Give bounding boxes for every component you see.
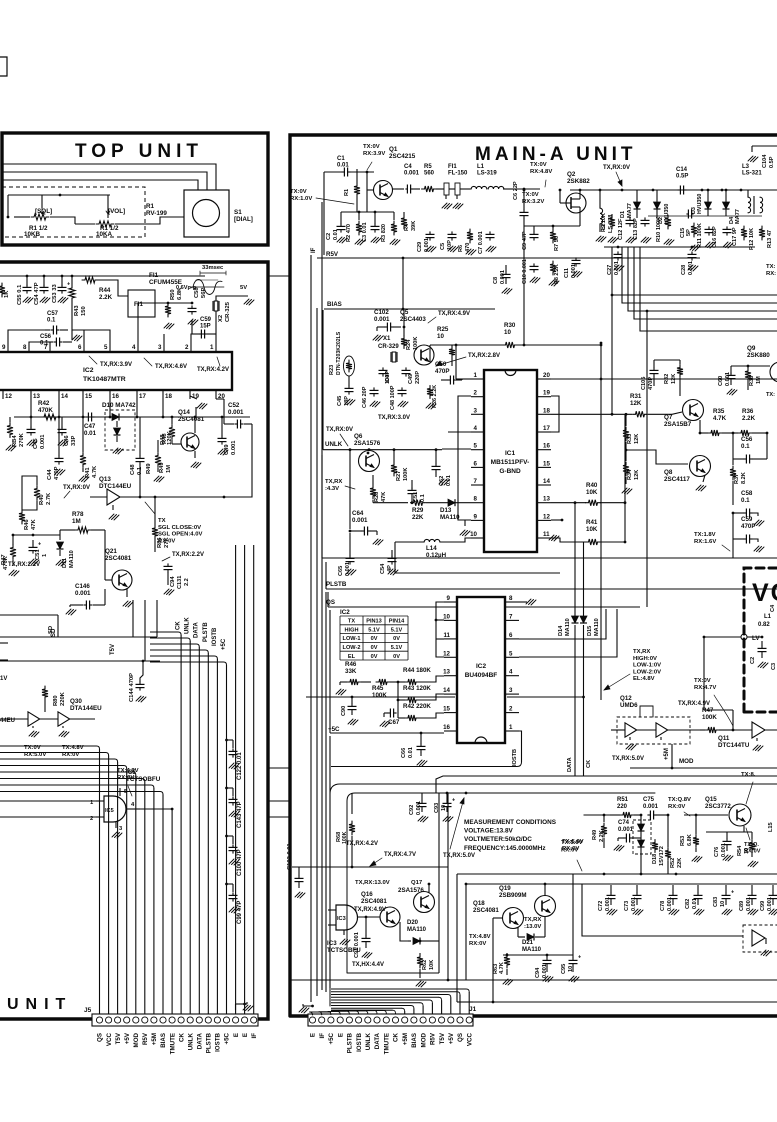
wire rail y883 xyxy=(465,883,777,980)
svg-text:9: 9 xyxy=(2,344,6,351)
amp bottom right xyxy=(752,930,766,946)
svg-text:0.001: 0.001 xyxy=(75,590,91,597)
svg-text:Q1: Q1 xyxy=(389,146,398,153)
wire J1 fan-in bus xyxy=(310,989,470,1015)
svg-text:10: 10 xyxy=(470,531,477,538)
svg-text:IOSTB: IOSTB xyxy=(356,1032,363,1051)
transistor Q16 2SC4081 sym xyxy=(358,907,400,927)
gate IC5 pins xyxy=(90,788,140,838)
svg-text:14: 14 xyxy=(443,687,450,694)
svg-text:R5: R5 xyxy=(424,164,432,170)
wire rail +5M MOD xyxy=(630,744,777,769)
ground IC1 pin11 xyxy=(549,535,559,541)
svg-text:UMD6: UMD6 xyxy=(620,702,638,709)
label S1 [DIAL] xyxy=(234,209,253,223)
svg-text:C53 33: C53 33 xyxy=(52,284,58,303)
svg-text:C13 82P: C13 82P xyxy=(633,218,639,240)
label VCO xyxy=(752,579,777,607)
svg-text:11: 11 xyxy=(443,632,450,639)
wire drop x457 xyxy=(457,874,473,1002)
svg-text:MA110: MA110 xyxy=(440,514,460,521)
svg-text:33K: 33K xyxy=(345,668,357,675)
capacitor C62 0.01 xyxy=(432,448,453,486)
capacitor C144 470P xyxy=(129,661,146,702)
wire lv tail xyxy=(732,710,734,730)
resistor R54 10 xyxy=(737,832,758,867)
svg-text:CR-325: CR-325 xyxy=(225,301,231,322)
label L1 VCO xyxy=(764,614,772,620)
svg-text:R1: R1 xyxy=(344,189,350,196)
label Q6 2SA1576 xyxy=(354,433,381,447)
svg-text:MA110: MA110 xyxy=(69,550,75,568)
label Q16 2SC4081 xyxy=(361,891,387,905)
capacitor C82 0.01 xyxy=(685,885,704,915)
gate IC5 AND xyxy=(104,796,126,822)
svg-text:R40: R40 xyxy=(586,482,598,489)
svg-text:R30: R30 xyxy=(504,322,516,329)
svg-text:RB4: RB4 xyxy=(12,435,18,447)
svg-text:RX:5.0V: RX:5.0V xyxy=(24,752,46,758)
wire lv-mesh xyxy=(703,637,705,710)
IC2 top pin stubs xyxy=(2,343,216,352)
svg-text:TX,RX:4.9V: TX,RX:4.9V xyxy=(438,311,470,317)
label L1 val xyxy=(758,622,770,628)
ground IC2 pin8 xyxy=(519,599,536,605)
svg-text:UNLK: UNLK xyxy=(187,1032,194,1050)
wire rail IF vertical xyxy=(323,172,325,255)
resistor R43 120K xyxy=(398,685,444,703)
label TX:0V RX:3.9V (Q1 base) xyxy=(363,144,385,170)
wire y1002 right xyxy=(473,1001,777,1003)
label FI1 CFUM455E xyxy=(149,272,182,286)
svg-text:TX,RX: TX,RX xyxy=(524,917,541,923)
svg-text:4: 4 xyxy=(132,344,136,351)
wire r44 out xyxy=(419,676,444,682)
label DATA vertical xyxy=(567,757,573,772)
svg-text:R54: R54 xyxy=(737,845,743,856)
label BIAS rail xyxy=(327,301,342,308)
svg-text:R46: R46 xyxy=(24,519,30,530)
label TX,RX:2.8V xyxy=(436,353,500,366)
svg-text:0.1: 0.1 xyxy=(741,443,750,450)
svg-text:470: 470 xyxy=(465,243,471,252)
svg-text:C60: C60 xyxy=(718,376,724,386)
svg-text:+: + xyxy=(38,542,41,548)
svg-text:D20: D20 xyxy=(407,920,419,926)
svg-text:R6: R6 xyxy=(458,245,464,252)
svg-text:IC2: IC2 xyxy=(83,367,94,374)
svg-text:C67: C67 xyxy=(388,719,400,726)
svg-text:Q6: Q6 xyxy=(354,433,363,440)
svg-text:0.01: 0.01 xyxy=(446,475,452,486)
svg-text:0.1: 0.1 xyxy=(741,497,750,504)
svg-text:0.001: 0.001 xyxy=(614,261,620,275)
svg-text:DTA144EU: DTA144EU xyxy=(70,705,102,712)
wire q8 base wire xyxy=(625,449,688,464)
capacitor C64 0.001 xyxy=(349,510,383,545)
capacitor C53 33 xyxy=(52,275,70,303)
svg-text:C99: C99 xyxy=(760,901,766,911)
svg-text:R48: R48 xyxy=(160,434,166,445)
wire y980 xyxy=(290,979,777,981)
svg-text:C2: C2 xyxy=(750,657,756,664)
R51 220 xyxy=(610,797,642,818)
label R49 value xyxy=(599,830,605,842)
svg-text:R36: R36 xyxy=(742,408,754,415)
wire BIAS rail xyxy=(324,257,495,311)
svg-text:10K: 10K xyxy=(429,960,435,970)
resistor R49 2.2K (audio) xyxy=(592,814,607,848)
svg-text:8.2K: 8.2K xyxy=(741,472,747,484)
svg-text:IC2: IC2 xyxy=(476,663,487,670)
label TX,RX:4.3V xyxy=(325,479,355,492)
svg-text:C100 47P: C100 47P xyxy=(237,849,243,876)
wire pin17 row xyxy=(135,399,196,418)
svg-text:0.001: 0.001 xyxy=(352,517,368,524)
capacitor C93 10 xyxy=(434,792,455,822)
capacitor C48 0.1 xyxy=(130,417,145,497)
svg-text:RX:0V: RX:0V xyxy=(469,941,486,947)
svg-text:TX,RX:5.0V: TX,RX:5.0V xyxy=(612,756,644,762)
resistor R28 47K xyxy=(370,475,387,502)
svg-text:C75: C75 xyxy=(643,797,655,803)
svg-text:0.6Vp-p: 0.6Vp-p xyxy=(176,285,197,291)
svg-text:DTC144TU: DTC144TU xyxy=(718,742,750,749)
svg-text:R52: R52 xyxy=(670,858,676,868)
label T5V bus xyxy=(110,644,116,655)
wire r47 row xyxy=(9,534,60,576)
svg-text:R44 180K: R44 180K xyxy=(403,667,431,674)
svg-text:CR-329: CR-329 xyxy=(378,344,399,350)
svg-text:PLSTB: PLSTB xyxy=(203,622,209,642)
svg-text:R2 470: R2 470 xyxy=(346,224,352,242)
resistor R48 120K xyxy=(162,416,175,444)
svg-text:IF: IF xyxy=(251,1033,258,1039)
svg-text:1K: 1K xyxy=(4,290,10,298)
svg-text:TX,RX:0V: TX,RX:0V xyxy=(63,485,90,491)
IC2 bottom pin stubs xyxy=(3,390,225,400)
svg-text:C6 22P: C6 22P xyxy=(513,181,519,200)
svg-text:2: 2 xyxy=(185,344,189,351)
svg-text:10K: 10K xyxy=(586,526,598,533)
label MOD xyxy=(679,758,694,765)
svg-text:UNIT: UNIT xyxy=(7,996,72,1013)
page-edge fragment top-left xyxy=(0,57,7,76)
svg-text:TK10487MTR: TK10487MTR xyxy=(83,376,126,383)
svg-text:2SC4081: 2SC4081 xyxy=(361,898,387,905)
svg-text:Q13: Q13 xyxy=(99,476,111,483)
svg-text:C57: C57 xyxy=(47,311,59,317)
wire R43-FI1 row xyxy=(72,280,128,340)
svg-text:2SB909M: 2SB909M xyxy=(499,892,527,899)
wire unlk drop xyxy=(349,448,352,529)
svg-text:0.001: 0.001 xyxy=(618,827,634,833)
svg-text:100K: 100K xyxy=(413,337,419,350)
svg-text:18: 18 xyxy=(165,393,172,400)
svg-text:TX,RX: TX,RX xyxy=(633,649,650,655)
svg-text:12: 12 xyxy=(543,513,550,520)
svg-text:0.001: 0.001 xyxy=(404,171,420,177)
label IF rail xyxy=(311,247,317,253)
label R47 470K xyxy=(3,555,9,570)
svg-text:QS: QS xyxy=(457,1033,464,1042)
svg-text:C50: C50 xyxy=(435,361,447,368)
svg-text:L14: L14 xyxy=(426,545,437,552)
amp Q13 DTC144EU xyxy=(90,476,140,520)
svg-text:17: 17 xyxy=(543,425,550,432)
svg-text:C51: C51 xyxy=(35,549,41,560)
svg-text:EL:4.8V: EL:4.8V xyxy=(633,676,655,682)
svg-text:10: 10 xyxy=(504,329,511,336)
svg-text:2: 2 xyxy=(474,390,478,397)
svg-text:C78: C78 xyxy=(660,901,666,911)
svg-text:IOSTB: IOSTB xyxy=(512,749,518,766)
svg-text:R42 220K: R42 220K xyxy=(403,703,431,710)
svg-text:C45: C45 xyxy=(337,396,343,406)
resistor R3 820 xyxy=(381,212,400,245)
capacitor C59 470P xyxy=(733,513,764,558)
svg-text:C91 0.001: C91 0.001 xyxy=(354,932,360,958)
svg-text:5: 5 xyxy=(474,443,478,450)
svg-text:10: 10 xyxy=(437,333,444,340)
svg-text:IC3: IC3 xyxy=(327,940,337,947)
svg-text:0.1: 0.1 xyxy=(47,318,56,324)
capacitor C46 33P xyxy=(58,417,78,446)
svg-text:C73: C73 xyxy=(624,901,630,911)
capacitor C99 0.001 xyxy=(760,885,777,915)
capacitor C45 18P (main) xyxy=(337,376,355,406)
svg-text:8: 8 xyxy=(23,344,27,351)
svg-text:IC2: IC2 xyxy=(340,609,350,616)
resistor R11 100K xyxy=(691,223,703,248)
svg-text:7: 7 xyxy=(44,344,48,351)
svg-text:C44: C44 xyxy=(47,469,53,480)
resistor R27 100K xyxy=(391,448,409,481)
svg-text:4.7K: 4.7K xyxy=(713,415,727,422)
svg-text:2SC4117: 2SC4117 xyxy=(664,476,690,483)
svg-text:12K: 12K xyxy=(634,434,640,444)
svg-text:C58: C58 xyxy=(741,490,753,497)
svg-text:BIAS: BIAS xyxy=(411,1033,418,1048)
amp Q12a xyxy=(611,723,637,750)
svg-text:DATA: DATA xyxy=(567,757,573,772)
resistor R45 100K xyxy=(372,679,399,699)
svg-text:2SK882: 2SK882 xyxy=(567,178,590,185)
svg-text:C52: C52 xyxy=(228,402,240,409)
svg-text:SGL CLOSE:0V: SGL CLOSE:0V xyxy=(158,525,201,531)
wire PLSTB rail xyxy=(326,562,777,589)
capacitor C103 0.01 xyxy=(287,842,293,870)
svg-text:R45: R45 xyxy=(372,685,384,692)
svg-text:150: 150 xyxy=(81,306,87,316)
svg-text:C89: C89 xyxy=(739,901,745,911)
svg-text:RV-199: RV-199 xyxy=(146,210,167,217)
amp Q12b xyxy=(637,723,700,740)
svg-text:15: 15 xyxy=(543,460,550,467)
resistor R53 6.8K xyxy=(680,814,702,862)
diode D2 HVU350 xyxy=(654,190,671,224)
svg-text:TX: TX xyxy=(348,619,355,625)
svg-text:C94: C94 xyxy=(535,967,541,978)
svg-text:TX,RX:4.6V: TX,RX:4.6V xyxy=(155,364,187,370)
transistor Q18 2SC4081 xyxy=(473,900,524,929)
resistor R34 12K xyxy=(622,450,640,494)
svg-text:X1: X1 xyxy=(383,336,391,342)
label R49 xyxy=(159,462,172,473)
PANEL UNIT title (cut) xyxy=(7,996,72,1013)
svg-text:C143 47P: C143 47P xyxy=(237,801,243,828)
wire r68 row xyxy=(292,793,448,876)
svg-text:5: 5 xyxy=(509,650,513,657)
svg-text:0.001: 0.001 xyxy=(688,261,694,275)
svg-text:LOW-2: LOW-2 xyxy=(343,645,361,651)
svg-text:R41: R41 xyxy=(85,467,91,478)
label TX,RX:5.0V mid xyxy=(443,798,475,859)
svg-text:+: + xyxy=(67,282,70,288)
wire UNLK rail xyxy=(323,310,442,450)
svg-text:R7 56: R7 56 xyxy=(554,236,560,251)
svg-text:220K: 220K xyxy=(60,691,66,706)
connector J1 pins xyxy=(309,1017,472,1023)
svg-text:IF: IF xyxy=(319,1033,326,1039)
wire IC1 pin5 feed xyxy=(442,448,471,450)
svg-text:C55 0.1: C55 0.1 xyxy=(17,284,23,305)
svg-text:TX:4.8V: TX:4.8V xyxy=(469,934,491,940)
label TX:0V RX:4.7V q11 xyxy=(694,678,733,726)
svg-text:12K: 12K xyxy=(630,400,642,407)
wire Q18 base drop xyxy=(492,918,503,1003)
svg-text:Q30: Q30 xyxy=(70,698,82,705)
capacitor C12 12F xyxy=(618,217,635,240)
label 10KA xyxy=(96,231,113,238)
svg-text:FI1: FI1 xyxy=(448,164,457,170)
node dot SQL wiper xyxy=(7,194,62,219)
resistor R40 2.7K xyxy=(34,480,52,505)
label R63 val xyxy=(499,962,505,974)
wire q7 base xyxy=(672,412,682,414)
svg-text:5.1V: 5.1V xyxy=(391,645,403,651)
connector J1 body xyxy=(308,1014,473,1026)
svg-text:0.01: 0.01 xyxy=(84,430,97,437)
svg-text:C95: C95 xyxy=(561,964,567,974)
capacitor C47 0.01 xyxy=(84,413,97,438)
capacitor C2 VCO xyxy=(750,641,768,668)
svg-text:0.001: 0.001 xyxy=(643,804,659,810)
resistor R38 1M xyxy=(745,366,762,390)
capacitor C11 0.001 xyxy=(564,257,582,278)
svg-text:0V: 0V xyxy=(393,636,400,642)
svg-text:C46: C46 xyxy=(64,435,70,446)
capacitor C10 0.001 xyxy=(522,259,540,284)
cap C103 xyxy=(295,875,306,898)
svg-text:[SQL]: [SQL] xyxy=(35,208,52,215)
svg-text:TX,RX:3.9V: TX,RX:3.9V xyxy=(100,362,132,368)
svg-text:TX:: TX: xyxy=(766,264,776,270)
transistor Q8 2SC4117 xyxy=(664,456,711,484)
svg-text:39K: 39K xyxy=(411,221,417,231)
svg-text:Q11: Q11 xyxy=(718,735,730,742)
label R42 value xyxy=(38,400,53,414)
svg-text:T5V: T5V xyxy=(110,644,116,655)
svg-text:10KA: 10KA xyxy=(96,231,113,238)
svg-text:0.001: 0.001 xyxy=(767,897,773,911)
svg-text:E: E xyxy=(310,1033,317,1037)
wire bus entries from left-unit top xyxy=(0,600,160,662)
IC1 right pins 20-11 xyxy=(537,372,551,538)
wire inner frame xyxy=(347,793,655,973)
svg-text:1M: 1M xyxy=(756,376,762,384)
wire pin11 R41 net xyxy=(551,538,586,542)
svg-text:TX,RX: TX,RX xyxy=(325,479,342,485)
svg-text:QS: QS xyxy=(97,1033,104,1042)
crystal X1 symbol xyxy=(391,352,397,362)
svg-text:UNLK: UNLK xyxy=(365,1032,372,1050)
resistor R7 56 xyxy=(550,229,560,251)
svg-text:QS: QS xyxy=(326,599,335,606)
svg-text:L1: L1 xyxy=(764,614,772,620)
svg-text:IC5: IC5 xyxy=(105,808,114,814)
R52 22K sym xyxy=(652,840,658,853)
wire pin20 line xyxy=(551,378,777,381)
svg-text:1SV172: 1SV172 xyxy=(659,846,665,866)
ground J1 E pin xyxy=(299,1004,314,1013)
svg-text:C72: C72 xyxy=(598,901,604,911)
resistor R44 zig xyxy=(398,679,419,685)
resistor R10 100K xyxy=(656,215,671,242)
capacitor C15 5P xyxy=(680,210,694,239)
svg-text:R28: R28 xyxy=(374,492,380,502)
svg-text:2.2: 2.2 xyxy=(184,578,190,586)
svg-text:+: + xyxy=(452,798,455,804)
svg-text:12: 12 xyxy=(443,650,450,657)
capacitor C94 470P xyxy=(164,563,177,587)
svg-text:R49: R49 xyxy=(146,463,152,474)
label Q5 2SC4403 xyxy=(400,309,426,323)
svg-text:RX:0V: RX:0V xyxy=(62,752,79,758)
svg-text:0.001: 0.001 xyxy=(500,270,506,284)
svg-text:LOW-1:0V: LOW-1:0V xyxy=(633,663,661,669)
svg-text:C46 20P: C46 20P xyxy=(362,386,368,408)
svg-text:TX:5.0V: TX:5.0V xyxy=(561,840,583,846)
svg-text:CK: CK xyxy=(178,1032,185,1041)
capacitor C56 0.1 xyxy=(40,334,82,347)
wire left-unit top rail xyxy=(0,275,205,277)
svg-text:0.5P: 0.5P xyxy=(676,174,688,180)
wire Q1 collector to C4 xyxy=(392,188,404,190)
capacitor C6 22P xyxy=(513,181,529,346)
svg-text:2SA1576: 2SA1576 xyxy=(398,887,424,894)
ceramic filter FI1 body xyxy=(128,290,155,317)
svg-text:13: 13 xyxy=(33,393,40,400)
svg-text:R27: R27 xyxy=(396,471,402,481)
svg-text:CK: CK xyxy=(586,760,592,768)
svg-text:J5: J5 xyxy=(84,1007,92,1014)
svg-text:R5V: R5V xyxy=(142,1032,149,1045)
wire IC5 inputs xyxy=(0,801,96,817)
svg-text:10KB: 10KB xyxy=(24,231,41,238)
svg-text:R33: R33 xyxy=(627,434,633,444)
capacitor C49 220P xyxy=(402,367,422,384)
svg-text:470K: 470K xyxy=(38,407,53,414)
svg-text:22K: 22K xyxy=(412,514,424,521)
svg-text:C93: C93 xyxy=(434,803,440,813)
wire q5 connections xyxy=(403,309,406,336)
svg-text:R3 820: R3 820 xyxy=(381,224,387,242)
svg-text:C28: C28 xyxy=(681,265,687,275)
svg-text:IC5: IC5 xyxy=(126,769,136,776)
diode D10a xyxy=(105,414,135,421)
svg-text:2.2K: 2.2K xyxy=(99,294,113,301)
